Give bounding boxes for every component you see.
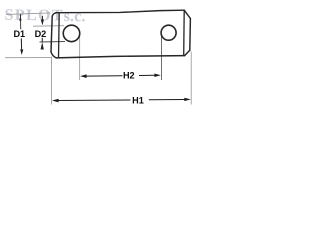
hole 2 circle [161,25,176,40]
watermark SPLOT s.c. [4,7,85,25]
pin right end face [189,19,192,51]
svg-text:H1: H1 [132,95,144,105]
pin left top rounded corner [52,13,56,17]
dimension H1 line left segment [58,99,131,102]
dimension H2 line left segment [86,75,123,77]
dimension D1 upper stem [19,14,21,29]
dimension H1 right arrow [184,98,191,101]
pin right top chamfer corner [184,10,190,18]
pin left chamfer edge line [58,13,61,58]
dimension D1 upper arrow [19,16,21,21]
extension line H1 right [190,52,192,105]
extension line H1 left [51,57,53,105]
dimension D2 lower arrow (points up) [41,42,44,50]
dimension H1 left arrow [52,99,59,103]
dimension H2 left arrow [80,74,87,78]
svg-text:SPLOT: SPLOT [4,7,64,25]
pin left bottom rounded corner [51,52,56,58]
dimension H2 line right segment [139,74,155,76]
dimension D2 upper stem [41,16,43,20]
extension line H2 right [161,34,163,80]
pin right chamfer edge line [183,10,186,55]
dimension H2 right arrow [154,74,160,78]
hole 1 circle [63,25,80,42]
dimension D1 lower arrow [20,49,23,55]
extension line H2 left [79,36,81,80]
svg-text:D2: D2 [35,29,47,39]
pin left end face [51,16,52,52]
dimension H1 line right segment [149,99,185,101]
extension line D1 bottom [5,57,51,59]
dimension D2 mid stem [41,38,43,42]
dimension D2 upper arrow (points down) [41,20,44,26]
svg-text:s.c.: s.c. [63,8,85,25]
dimension D1 lower stem [20,38,22,49]
extension line D2 bottom (hole 1 bottom tangent) [40,41,66,43]
pin right bottom chamfer corner [185,50,190,55]
svg-text:H2: H2 [123,71,135,81]
pin body bottom edge [56,56,185,58]
extension line D1 top (through watermark) [6,13,51,15]
pin body top edge [56,10,185,13]
extension line D2 top (hole 1 top tangent) [33,25,64,28]
svg-text:D1: D1 [13,29,25,39]
